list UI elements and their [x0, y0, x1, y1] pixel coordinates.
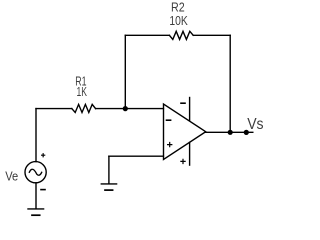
wire: output from op-amp to Vs terminal	[206, 131, 253, 133]
Vs terminal pin dot	[244, 130, 249, 135]
op-amp inverting input - label	[167, 119, 171, 121]
ground (op-amp +) bar 2	[105, 189, 113, 191]
wire: non-inverting input horizontal	[109, 155, 163, 157]
op-amp power pin V+ (bottom stub)	[189, 142, 191, 165]
wire: top left horizontal to R2	[125, 34, 169, 36]
output node junction dot	[228, 130, 233, 135]
wire: feedback right vertical down to output node	[229, 35, 231, 132]
wire: Ve bottom vertical to ground	[35, 183, 37, 209]
svg-text:1K: 1K	[77, 84, 88, 99]
ground (op-amp +) bar 1	[101, 183, 116, 185]
Ve polarity -	[41, 189, 45, 191]
svg-text:Ve: Ve	[5, 169, 18, 184]
wire: top right horizontal from R2	[193, 34, 230, 36]
ground (under Ve) bar 1	[28, 208, 44, 210]
wire: R1 to inverting input of op-amp	[96, 108, 164, 110]
Ve polarity +	[42, 154, 45, 157]
op-amp power pin V- (top stub)	[189, 98, 191, 121]
node A junction dot (inverting input / feedback)	[123, 106, 128, 111]
op-amp V+ label	[181, 159, 185, 163]
ground (under Ve) bar 2	[32, 214, 40, 216]
op-amp V- label	[181, 102, 185, 104]
op-amp non-inverting input + label	[168, 143, 172, 147]
wire: feedback left vertical (node A up to R2)	[124, 35, 126, 108]
svg-text:10K: 10K	[169, 13, 188, 28]
source Ve sine wave	[29, 169, 41, 175]
source Ve circle	[25, 162, 46, 183]
op-amp U1 triangle	[164, 104, 206, 160]
resistor R2 zigzag	[169, 31, 193, 39]
svg-text:Vs: Vs	[247, 116, 263, 133]
wire: non-inverting down to ground	[108, 156, 110, 184]
resistor R1 zigzag	[72, 104, 96, 112]
wire: Ve top vertical	[35, 109, 37, 162]
wire: input from Ve corner to R1	[36, 108, 72, 110]
